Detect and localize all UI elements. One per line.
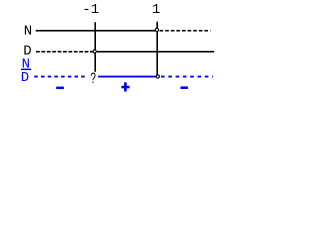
N row open circle at x=1 — [155, 28, 158, 31]
plus sign (middle interval) — [121, 86, 129, 89]
N/D row solid blue line between -1 and 1 — [98, 76, 156, 78]
D row solid line — [97, 51, 214, 53]
minus sign (right interval) — [181, 86, 188, 89]
D row dashed line (left of -1) — [36, 51, 93, 53]
N/D row dashed blue line (left of -1) — [34, 76, 87, 78]
sign chart diagram — [0, 0, 225, 97]
svg-text:N: N — [24, 24, 32, 40]
N/D row dashed blue line (right of 1) — [161, 76, 213, 78]
svg-text:-1: -1 — [82, 2, 99, 18]
N row dashed line (right of 1) — [160, 30, 211, 32]
fraction bar — [21, 69, 31, 71]
svg-text:1: 1 — [152, 2, 160, 18]
vertical line at -1 — [94, 22, 96, 72]
N row solid line — [36, 30, 156, 32]
vertical line at 1 — [156, 22, 158, 76]
N/D row open circle at x=1 — [156, 75, 159, 78]
svg-text:D: D — [21, 70, 29, 86]
minus sign (left interval) — [56, 87, 64, 90]
svg-text:?: ? — [90, 70, 96, 88]
D row open circle at x=-1 — [93, 50, 96, 53]
question mark at x=-1 — [90, 70, 96, 88]
